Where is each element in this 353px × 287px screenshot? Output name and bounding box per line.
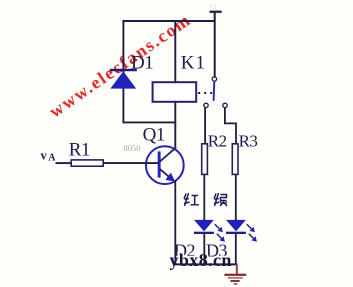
wire D1 bottom horizontal to collector node — [123, 121, 177, 123]
svg-text:8050: 8050 — [124, 143, 141, 153]
relay contact left — [204, 103, 208, 107]
transistor Q1 — [146, 146, 184, 184]
wire left vertical (D1 branch) — [122, 20, 124, 123]
wire switch common vertical — [214, 12, 216, 77]
svg-text:R3: R3 — [239, 132, 258, 151]
diode D1 — [110, 70, 137, 89]
resistor R1 — [71, 160, 103, 166]
LED D2 light arrows — [215, 224, 225, 242]
LED D3 light arrows — [247, 224, 257, 242]
dashed mechanical link — [198, 92, 212, 94]
resistor R3 — [232, 144, 238, 175]
wire relay coil top lead — [174, 20, 176, 83]
wire top rail — [123, 20, 216, 22]
label green LED (lv) — [214, 193, 227, 206]
wire D3 cathode down — [235, 234, 237, 265]
svg-text:R1: R1 — [69, 139, 90, 160]
svg-text:K1: K1 — [181, 53, 206, 74]
LED D3 — [226, 220, 246, 234]
svg-text:R2: R2 — [208, 132, 227, 151]
relay contact pivot — [212, 77, 216, 81]
svg-text:D1: D1 — [131, 53, 153, 74]
wire D2 cathode down — [203, 234, 205, 265]
relay contact right — [223, 103, 227, 107]
wire bottom rail — [174, 263, 237, 265]
wire emitter down — [174, 181, 176, 265]
wire R3 to LED D3 — [235, 174, 237, 220]
LED D2 — [194, 220, 214, 234]
svg-text:+5: +5 — [209, 3, 217, 11]
wire VA to R1 — [56, 162, 72, 164]
wire R2 to LED D2 — [203, 174, 205, 220]
resistor R2 — [202, 144, 208, 175]
wire R1 to base — [103, 162, 158, 164]
wire relay coil bottom lead — [174, 102, 176, 148]
label red LED (hong) — [184, 193, 199, 206]
relay armature blade — [213, 81, 216, 101]
svg-text:www.elecfans.com: www.elecfans.com — [45, 9, 194, 121]
svg-text:ybx8.cn: ybx8.cn — [170, 250, 232, 270]
svg-text:Q1: Q1 — [143, 125, 165, 146]
relay coil K1 — [153, 82, 197, 102]
svg-text:vA: vA — [41, 148, 57, 163]
power terminal +5V label — [209, 3, 222, 13]
wire right contact jog to R3 — [225, 108, 236, 145]
wire left contact to R2 — [204, 108, 206, 145]
ground — [224, 264, 246, 285]
